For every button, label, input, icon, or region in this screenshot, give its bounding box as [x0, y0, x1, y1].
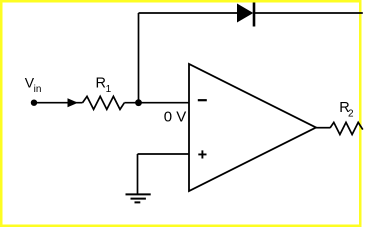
wire from diode cathode to right edge [255, 12, 363, 14]
svg-text:0 V: 0 V [164, 108, 187, 125]
svg-text:1: 1 [106, 84, 112, 95]
wire arrowhead current direction [68, 98, 79, 107]
wire input from Vin node to R1 [34, 102, 83, 104]
resistor R2 [330, 122, 363, 134]
wire non-inverting input horizontal [138, 153, 190, 155]
svg-text:R: R [96, 75, 106, 91]
diode D1 cathode bar [253, 3, 256, 27]
pin inverting input minus sign [198, 99, 207, 101]
svg-text:in: in [34, 84, 42, 95]
pin non-inverting input plus sign [198, 150, 206, 158]
wire from R1 to inverting input [124, 102, 189, 104]
wire feedback vertical riser [138, 13, 140, 103]
svg-text:2: 2 [348, 109, 354, 120]
wire non-inverting input down to ground [137, 154, 139, 194]
node junction feedback/input [135, 99, 142, 106]
op-amp U1 [189, 64, 316, 191]
resistor R1 [83, 96, 125, 109]
node Vin input terminal [31, 100, 37, 106]
ground [126, 194, 151, 202]
diode D1 anode triangle [237, 4, 253, 23]
wire feedback top horizontal to diode anode [139, 12, 238, 14]
wire output from op-amp apex [316, 127, 330, 129]
